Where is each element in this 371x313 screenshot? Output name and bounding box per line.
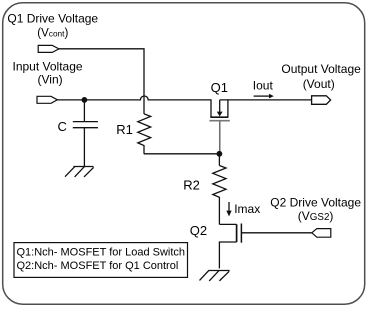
wire Vin to Q1 source with hop over R1 wire — [57, 96, 211, 117]
svg-text:(Vout): (Vout) — [303, 77, 335, 91]
capacitor C — [73, 121, 98, 123]
svg-text:R2: R2 — [183, 178, 200, 193]
svg-text:(Vin): (Vin) — [38, 72, 63, 86]
wire Vcont to R1 top — [59, 49, 144, 114]
svg-text:Output Voltage: Output Voltage — [281, 62, 361, 76]
transistor Q2 — [219, 224, 241, 269]
wire capacitor to ground — [83, 128, 85, 167]
svg-text:Q1 Drive Voltage: Q1 Drive Voltage — [7, 12, 98, 26]
wire node to R2 — [218, 154, 220, 166]
connector VGS2 — [312, 229, 331, 238]
svg-text:Q2:Nch- MOSFET for Q1 Control: Q2:Nch- MOSFET for Q1 Control — [17, 260, 179, 272]
transistor Q1 — [209, 100, 229, 152]
svg-text:Q1: Q1 — [211, 80, 228, 95]
svg-text:(Vcont): (Vcont) — [37, 28, 68, 40]
connector Vcont — [38, 45, 59, 52]
svg-text:Imax: Imax — [234, 202, 260, 216]
wire Q2 gate to VGS2 — [241, 232, 311, 234]
connector Vin — [37, 96, 57, 103]
svg-text:Iout: Iout — [253, 79, 274, 93]
resistor R1 — [138, 114, 151, 154]
svg-text:Input Voltage: Input Voltage — [13, 59, 83, 73]
svg-text:Q2: Q2 — [190, 223, 207, 238]
node junction gate/R2 — [217, 151, 223, 157]
svg-text:R1: R1 — [116, 122, 133, 137]
ground below C — [65, 167, 94, 177]
node junction Vin/C — [82, 97, 88, 103]
svg-text:C: C — [58, 119, 67, 134]
wire R1 bottom to gate node — [144, 153, 220, 155]
wire junction to capacitor — [83, 100, 85, 121]
svg-text:(VGS2): (VGS2) — [298, 209, 334, 223]
wire Q1 drain to Vout — [228, 99, 312, 101]
note box — [14, 243, 188, 278]
arrow Imax — [228, 202, 230, 212]
arrow Iout — [254, 95, 270, 97]
connector Vout — [312, 96, 331, 105]
ground below Q2 — [200, 271, 230, 281]
svg-text:Q1:Nch- MOSFET for Load Switch: Q1:Nch- MOSFET for Load Switch — [17, 246, 186, 258]
svg-text:Q2 Drive Voltage: Q2 Drive Voltage — [270, 195, 361, 209]
resistor R2 — [213, 166, 226, 225]
